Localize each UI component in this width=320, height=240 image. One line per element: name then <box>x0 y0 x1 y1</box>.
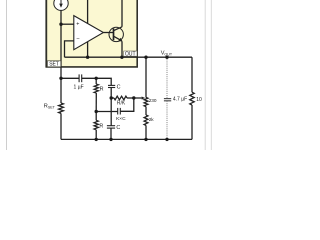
page rule right1 <box>204 0 206 150</box>
wire collector rail <box>121 0 123 27</box>
capacitor C1 1uF <box>61 74 97 90</box>
transistor Q1 <box>103 27 123 57</box>
wire output rail <box>65 56 193 58</box>
pin label SET <box>47 61 60 68</box>
page rule right2 <box>210 0 212 150</box>
wire node A <box>96 78 111 85</box>
capacitor C lower <box>107 98 121 139</box>
resistor R/K <box>111 96 145 106</box>
svg-text:R/K: R/K <box>117 101 126 107</box>
wire noninverting input <box>61 23 74 25</box>
capacitor C upper <box>108 84 121 98</box>
capacitor KxC <box>96 98 134 122</box>
svg-text:4.7 µF: 4.7 µF <box>173 96 187 102</box>
resistor 2k <box>144 107 154 140</box>
svg-text:230: 230 <box>149 98 157 103</box>
svg-text:C: C <box>117 84 121 90</box>
svg-text:10: 10 <box>196 97 202 103</box>
IC U1 body <box>46 0 138 68</box>
wire SET column <box>60 10 62 103</box>
svg-text:2k: 2k <box>149 117 155 122</box>
resistor R upper <box>94 78 103 111</box>
wire supply stub <box>87 0 89 57</box>
junction dots <box>59 23 168 142</box>
wire feedback loop <box>65 41 74 57</box>
resistor 10 <box>190 57 202 139</box>
svg-text:R: R <box>100 87 104 93</box>
wire ground rail <box>61 138 192 140</box>
svg-text:1 µF: 1 µF <box>74 84 84 90</box>
svg-text:+: + <box>76 21 79 27</box>
svg-text:SET: SET <box>49 62 59 68</box>
pin label OUT <box>124 51 137 57</box>
svg-text:C: C <box>116 125 120 131</box>
svg-text:K×C: K×C <box>116 116 126 122</box>
current source I1 <box>54 0 68 10</box>
resistor RSET <box>44 103 64 139</box>
svg-text:OUT: OUT <box>125 51 136 57</box>
op-amp U1 <box>74 16 104 50</box>
page rule left <box>6 0 8 150</box>
capacitor 4.7uF <box>164 57 187 139</box>
svg-text:R: R <box>99 123 103 129</box>
resistor R lower <box>94 112 103 140</box>
resistor 230 <box>144 57 157 106</box>
